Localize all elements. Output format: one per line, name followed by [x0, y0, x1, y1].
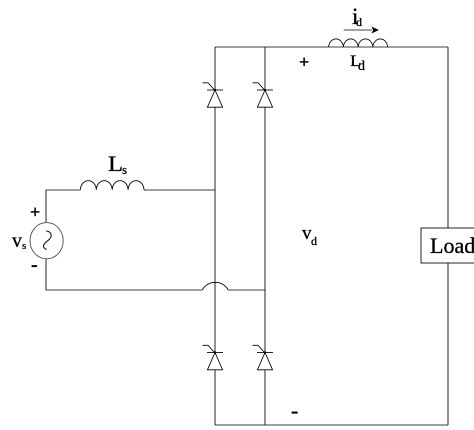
label vd v [302, 224, 312, 243]
wire right leg [264, 47, 266, 425]
wire source top [46, 190, 215, 223]
inductor Ld [329, 39, 388, 47]
label Ls L [108, 153, 123, 175]
label vd d [311, 235, 317, 247]
wire right side upper [447, 47, 449, 228]
wire right side lower [447, 263, 449, 425]
inductor Ls [80, 181, 144, 190]
wire bottom rail [215, 424, 448, 426]
label Load [430, 235, 474, 257]
current arrow id [344, 27, 379, 34]
wire left leg [214, 47, 216, 425]
thyristor T4 bottom-left [203, 345, 224, 370]
label Ls s [122, 163, 127, 176]
thyristor T1 top-left [203, 83, 224, 107]
label Ld d [358, 60, 365, 74]
label + dc [299, 53, 309, 71]
label id i [352, 5, 358, 28]
label - dc [291, 400, 298, 422]
label vs v [12, 231, 22, 251]
source vs circle [30, 223, 63, 259]
wire source bottom [46, 259, 202, 290]
label vs s [22, 241, 26, 252]
wire hop crossover [202, 282, 228, 290]
wire hop to right leg [228, 289, 265, 291]
thyristor T3 top-right [253, 83, 274, 107]
thyristor T2 bottom-right [253, 345, 274, 370]
wire top rail [215, 46, 448, 48]
label - source [31, 255, 38, 275]
label id d [356, 16, 362, 28]
load box [421, 228, 474, 263]
label + source [30, 203, 40, 221]
source sine squiggle [43, 231, 51, 250]
label Ld L [350, 54, 361, 70]
